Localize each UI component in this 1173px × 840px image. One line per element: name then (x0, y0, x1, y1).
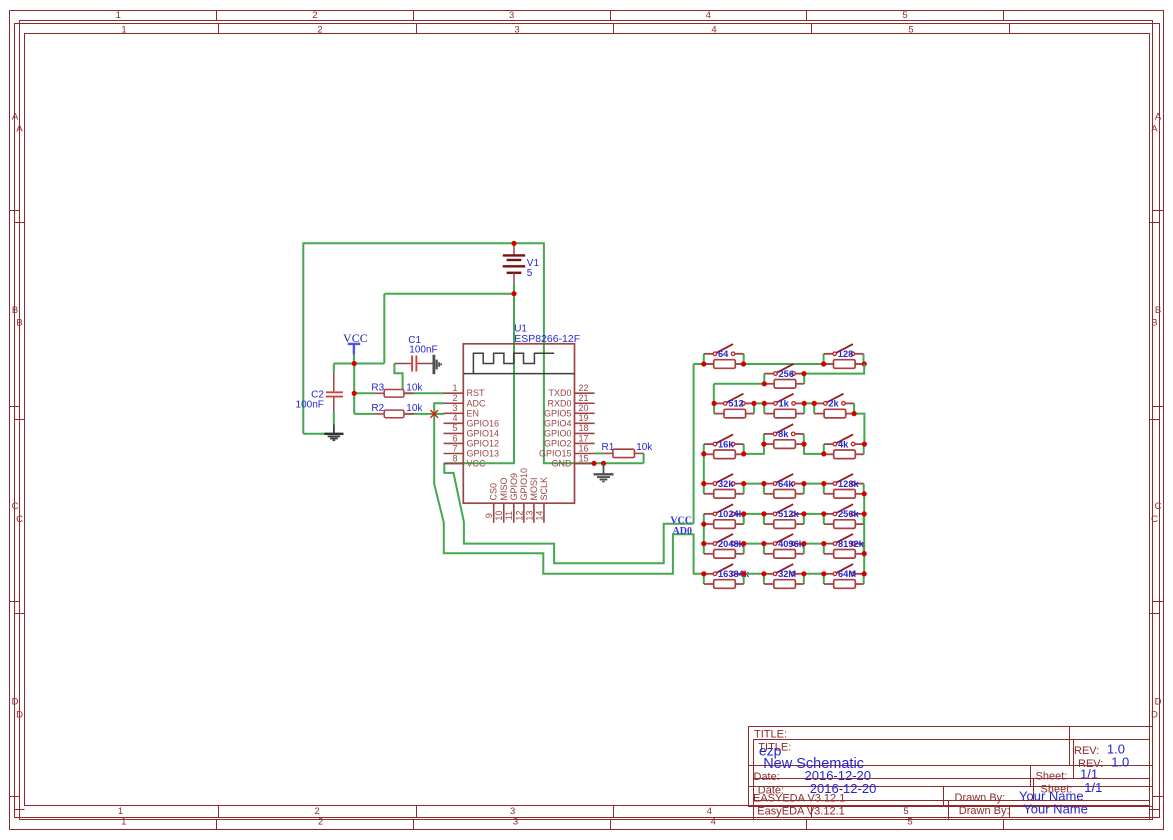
svg-text:Date:: Date: (754, 771, 780, 783)
junction (821, 511, 826, 516)
svg-text:GPIO0: GPIO0 (544, 428, 572, 438)
wire (444, 463, 693, 563)
wire (744, 573, 824, 575)
junction (761, 442, 766, 447)
svg-text:64k: 64k (778, 479, 794, 489)
pin 15 GND (552, 453, 595, 468)
junction (352, 361, 357, 366)
svg-text:R2: R2 (371, 403, 384, 414)
capacitor C1 (394, 356, 433, 372)
svg-text:Sheet:: Sheet: (1036, 770, 1068, 782)
svg-text:3: 3 (509, 10, 514, 21)
junction (862, 511, 867, 516)
junction (712, 401, 717, 406)
pin 6 GPIO12 (444, 433, 499, 448)
pin 21 RXD0 (547, 393, 594, 408)
resistor 32k (704, 490, 744, 499)
switch 256k (824, 504, 864, 524)
svg-text:D: D (1151, 710, 1158, 721)
svg-text:A: A (1151, 124, 1158, 135)
svg-text:100nF: 100nF (409, 344, 437, 355)
power flag VCC (343, 331, 368, 364)
label V1 (527, 258, 540, 269)
svg-text:2: 2 (315, 806, 320, 817)
switch 16384k (704, 564, 744, 584)
IC U1 body (463, 344, 574, 503)
svg-text:2k: 2k (828, 399, 839, 409)
svg-text:3: 3 (510, 806, 515, 817)
wire (714, 384, 765, 404)
wire (744, 513, 824, 515)
svg-text:2: 2 (317, 24, 322, 35)
resistor 2048k (704, 550, 744, 559)
value 5 (527, 268, 533, 279)
svg-text:VCC: VCC (467, 459, 487, 469)
svg-text:EN: EN (467, 408, 480, 418)
value label 16k (718, 439, 734, 449)
wire (643, 453, 645, 463)
resistor R3 (374, 390, 414, 398)
value label 2k (828, 399, 839, 409)
pin 16 GPIO15 (539, 443, 595, 458)
switch 16k (704, 434, 744, 454)
junction (801, 371, 806, 376)
value label 2048k (718, 539, 745, 549)
junction (701, 522, 706, 527)
svg-text:AD0: AD0 (673, 526, 692, 537)
svg-text:3: 3 (513, 817, 518, 828)
junction (761, 541, 766, 546)
svg-text:14: 14 (534, 511, 544, 521)
switch 1k (764, 394, 804, 414)
svg-text:1: 1 (121, 817, 126, 828)
ground (434, 355, 441, 375)
switch 64k (764, 474, 804, 494)
svg-text:512k: 512k (778, 509, 800, 519)
resistor R1 (604, 449, 644, 457)
svg-text:16k: 16k (718, 439, 734, 449)
junction (511, 291, 516, 296)
pin 5 GPIO14 (444, 423, 499, 438)
svg-text:5: 5 (902, 10, 907, 21)
junction (802, 401, 807, 406)
svg-text:ESP8266-12F: ESP8266-12F (514, 333, 580, 345)
junction (761, 511, 766, 516)
switch 512k (764, 504, 804, 524)
svg-text:100nF: 100nF (296, 400, 324, 411)
switch 256 (764, 364, 804, 384)
label C2 (311, 389, 324, 400)
svg-text:GPIO16: GPIO16 (467, 418, 500, 428)
svg-text:D: D (16, 710, 23, 721)
label R3 (371, 383, 384, 394)
svg-text:18: 18 (579, 423, 589, 433)
resistor 32M (764, 580, 804, 589)
svg-text:10k: 10k (636, 442, 653, 453)
svg-text:GPIO2: GPIO2 (544, 438, 572, 448)
resistor 512k (764, 520, 804, 529)
svg-text:5: 5 (903, 806, 908, 817)
svg-text:1: 1 (452, 383, 457, 393)
value label 4096k (778, 539, 805, 549)
pin 3 EN (444, 403, 479, 418)
svg-text:Date:: Date: (758, 784, 784, 796)
wire (804, 444, 824, 454)
junction (591, 461, 596, 466)
svg-text:2: 2 (312, 10, 317, 21)
pin 4 GPIO16 (444, 413, 499, 428)
svg-text:ADC: ADC (467, 398, 487, 408)
svg-text:4: 4 (452, 413, 457, 423)
svg-text:R1: R1 (602, 442, 615, 453)
switch 4k (824, 434, 864, 454)
wire (863, 494, 865, 574)
svg-text:D: D (12, 696, 19, 707)
value label 64 (718, 349, 729, 359)
pin 14 SCLK (534, 477, 549, 523)
svg-text:REV:: REV: (1074, 745, 1099, 757)
junction (801, 481, 806, 486)
svg-text:1: 1 (116, 10, 121, 21)
svg-text:GPIO9: GPIO9 (509, 473, 519, 501)
wire (854, 414, 864, 445)
switch 128k (824, 474, 864, 494)
svg-text:6: 6 (452, 433, 457, 443)
svg-text:GPIO13: GPIO13 (467, 449, 500, 459)
svg-text:2: 2 (318, 817, 323, 828)
pin 9 CS0 (484, 483, 499, 523)
svg-text:D: D (1155, 696, 1162, 707)
capacitor C2 (326, 373, 343, 413)
svg-text:3: 3 (452, 403, 457, 413)
svg-text:11: 11 (504, 511, 514, 520)
switch 64 (704, 344, 744, 364)
pin 2 ADC (444, 393, 486, 408)
svg-text:4: 4 (706, 10, 711, 21)
resistor 256 (764, 380, 804, 389)
resistor 8192k (824, 550, 864, 559)
junction (862, 442, 867, 447)
svg-text:21: 21 (579, 393, 589, 403)
value label 8k (778, 429, 789, 439)
junction (821, 481, 826, 486)
svg-text:16: 16 (579, 443, 589, 453)
svg-text:5: 5 (908, 24, 913, 35)
junction (821, 571, 826, 576)
junction (862, 361, 867, 366)
junction (741, 451, 746, 456)
svg-text:1: 1 (118, 806, 123, 817)
wire (434, 403, 704, 574)
resistor 4k (824, 450, 864, 459)
resistor 1k (764, 409, 804, 418)
wire (804, 364, 864, 374)
junction (821, 361, 826, 366)
svg-text:GPIO10: GPIO10 (519, 468, 529, 501)
junction (741, 511, 746, 516)
pin 17 GPIO2 (544, 433, 595, 448)
value 100nF (409, 344, 437, 355)
wire (334, 294, 385, 364)
pin 19 GPIO4 (544, 413, 595, 428)
svg-text:13: 13 (524, 511, 534, 521)
resistor 64 (704, 360, 744, 369)
wire (394, 364, 402, 393)
svg-text:19: 19 (579, 413, 589, 423)
svg-text:RST: RST (467, 388, 486, 398)
wire (354, 364, 374, 414)
svg-text:128: 128 (838, 349, 854, 359)
svg-text:TITLE:: TITLE: (754, 728, 787, 740)
svg-text:VCC: VCC (343, 331, 368, 345)
pin 7 GPIO13 (444, 443, 499, 458)
junction (701, 571, 706, 576)
value label 128 (838, 349, 854, 359)
net label VCC (670, 516, 692, 527)
battery V1 (503, 243, 525, 293)
svg-text:5: 5 (452, 423, 457, 433)
value label 32k (718, 479, 734, 489)
wire (744, 543, 824, 545)
switch 64M (824, 564, 864, 584)
junction (821, 451, 826, 456)
junction (862, 571, 867, 576)
svg-text:C: C (12, 501, 19, 512)
wire (384, 294, 514, 464)
svg-text:CS0: CS0 (489, 483, 499, 501)
svg-text:5: 5 (527, 268, 533, 279)
resistor 1024k (704, 520, 744, 529)
svg-text:MISO: MISO (499, 477, 509, 500)
junction (352, 391, 357, 396)
label C1 (408, 335, 421, 346)
svg-text:SCLK: SCLK (539, 477, 549, 501)
wire (595, 452, 604, 454)
resistor 64k (764, 490, 804, 499)
svg-text:A: A (16, 124, 23, 135)
pin 18 GPIO0 (544, 423, 595, 438)
svg-text:RXD0: RXD0 (547, 398, 571, 408)
switch 8k (764, 424, 804, 444)
junction (701, 451, 706, 456)
ground (594, 463, 614, 481)
svg-text:15: 15 (579, 453, 589, 463)
value label 256k (838, 509, 860, 519)
label R2 (371, 403, 384, 414)
svg-text:New Schematic: New Schematic (763, 756, 864, 772)
svg-text:17: 17 (579, 433, 589, 443)
svg-text:2: 2 (452, 393, 457, 403)
resistor 16384k (704, 580, 744, 589)
switch 4096k (764, 534, 804, 554)
wire (754, 402, 814, 404)
title block B (754, 740, 1150, 820)
junction (801, 442, 806, 447)
value ESP8266-12F (514, 333, 580, 345)
switch 8192k (824, 534, 864, 554)
junction (701, 481, 706, 486)
value label 64k (778, 479, 794, 489)
svg-text:7: 7 (452, 443, 457, 453)
value label 4k (838, 439, 849, 449)
svg-text:8k: 8k (778, 429, 789, 439)
svg-text:Drawn By:: Drawn By: (955, 792, 1006, 804)
wire (694, 364, 865, 524)
svg-text:Drawn By:: Drawn By: (959, 805, 1010, 817)
junction (852, 411, 857, 416)
svg-text:C: C (1155, 501, 1162, 512)
svg-text:GND: GND (552, 459, 573, 469)
svg-text:1.0: 1.0 (1111, 755, 1129, 770)
svg-text:4: 4 (711, 817, 716, 828)
svg-text:10k: 10k (406, 383, 423, 394)
svg-text:1/1: 1/1 (1084, 780, 1102, 795)
ground (324, 425, 343, 441)
net label AD0 (673, 526, 692, 537)
resistor R2 (374, 410, 414, 418)
svg-text:GPIO14: GPIO14 (467, 428, 500, 438)
junction (862, 551, 867, 556)
value label 1k (779, 399, 790, 409)
label U1 (514, 324, 527, 335)
resistor 8k (764, 440, 804, 449)
pin 10 MISO (494, 477, 509, 522)
svg-text:2016-12-20: 2016-12-20 (810, 781, 877, 796)
svg-text:128k: 128k (838, 479, 860, 489)
value label 512k (778, 509, 800, 519)
wire (744, 483, 824, 485)
svg-text:TXD0: TXD0 (548, 388, 571, 398)
switch 2k (814, 394, 854, 414)
svg-text:256: 256 (779, 369, 795, 379)
value 10k (406, 383, 423, 394)
wire (303, 243, 643, 463)
svg-text:1k: 1k (779, 399, 790, 409)
value label 16384k (718, 569, 750, 579)
junction (812, 401, 817, 406)
svg-text:C: C (1151, 514, 1158, 525)
svg-text:32M: 32M (778, 569, 796, 579)
label R1 (602, 442, 615, 453)
value label 8192k (838, 539, 865, 549)
svg-text:10k: 10k (406, 403, 423, 414)
junction (751, 401, 756, 406)
switch 32M (764, 564, 804, 584)
svg-text:GPIO5: GPIO5 (544, 408, 572, 418)
wire (703, 524, 705, 544)
value 10k (636, 442, 653, 453)
svg-text:12: 12 (514, 511, 524, 521)
svg-text:8192k: 8192k (838, 539, 865, 549)
value label 512 (728, 399, 744, 409)
svg-text:20: 20 (579, 403, 589, 413)
resistor 128 (824, 360, 864, 369)
svg-text:9: 9 (484, 513, 494, 518)
resistor 4096k (764, 550, 804, 559)
svg-text:GPIO4: GPIO4 (544, 418, 572, 428)
resistor 16k (704, 450, 744, 459)
svg-text:22: 22 (579, 383, 589, 393)
pin 1 RST (444, 383, 485, 398)
junction (821, 541, 826, 546)
svg-text:10: 10 (494, 511, 504, 521)
junction (741, 361, 746, 366)
switch 1024k (704, 504, 744, 524)
svg-text:4096k: 4096k (778, 539, 805, 549)
svg-text:1: 1 (121, 24, 126, 35)
svg-text:R3: R3 (371, 383, 384, 394)
svg-text:64M: 64M (838, 569, 856, 579)
junction (762, 401, 767, 406)
svg-text:GPIO12: GPIO12 (467, 438, 500, 448)
junction (761, 571, 766, 576)
junction (511, 241, 516, 246)
junction (801, 511, 806, 516)
pin 8 VCC (444, 453, 486, 468)
value label 32M (778, 569, 796, 579)
junction (761, 481, 766, 486)
junction (801, 541, 806, 546)
svg-text:GPIO15: GPIO15 (539, 449, 572, 459)
svg-text:4: 4 (707, 806, 712, 817)
svg-text:5: 5 (907, 817, 912, 828)
svg-text:8: 8 (452, 453, 457, 463)
svg-text:2048k: 2048k (718, 539, 745, 549)
junction (762, 381, 767, 386)
resistor 512 (714, 409, 754, 418)
switch 2048k (704, 534, 744, 554)
wire cross marker (430, 410, 438, 418)
wire (333, 413, 335, 425)
svg-text:A: A (1155, 111, 1162, 122)
svg-text:64: 64 (718, 349, 729, 359)
value label 1024k (718, 509, 745, 519)
junction (862, 491, 867, 496)
pin 12 GPIO10 (514, 468, 529, 523)
pin 13 MOSI (524, 477, 539, 522)
svg-text:EasyEDA V3.12.1: EasyEDA V3.12.1 (757, 806, 844, 818)
value 10k (406, 403, 423, 414)
wire (333, 364, 335, 373)
junction (701, 361, 706, 366)
junction (741, 571, 746, 576)
junction (601, 461, 606, 466)
svg-text:REV:: REV: (1078, 758, 1103, 770)
svg-text:512: 512 (728, 399, 744, 409)
svg-text:256k: 256k (838, 509, 860, 519)
svg-text:32k: 32k (718, 479, 734, 489)
switch 32k (704, 474, 744, 494)
wire (404, 413, 444, 415)
svg-text:B: B (1151, 318, 1157, 329)
svg-text:4k: 4k (838, 439, 849, 449)
wire (703, 454, 705, 484)
svg-text:Sheet:: Sheet: (1041, 784, 1073, 796)
svg-text:1024k: 1024k (718, 509, 745, 519)
junction (801, 571, 806, 576)
resistor 256k (824, 520, 864, 529)
svg-text:A: A (12, 111, 19, 122)
junction (741, 541, 746, 546)
switch 128 (824, 344, 864, 364)
resistor 64M (824, 580, 864, 589)
svg-text:4: 4 (711, 24, 716, 35)
junction (741, 481, 746, 486)
svg-text:TITLE:: TITLE: (758, 742, 791, 754)
pin 20 GPIO5 (544, 403, 595, 418)
resistor 128k (824, 490, 864, 499)
wire (404, 392, 444, 394)
